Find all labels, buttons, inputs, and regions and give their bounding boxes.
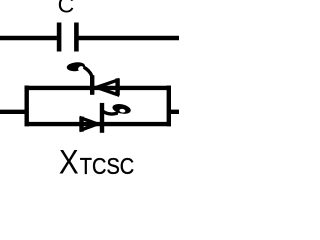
capacitor C left plate <box>57 23 62 52</box>
thyristor T2 gate blob <box>112 102 132 115</box>
thyristor T1 cathode bar <box>90 75 94 95</box>
wire (TCSC box left edge) <box>25 86 29 127</box>
thyristor T2 triangle <box>82 118 98 130</box>
wire (right lead of series capacitor) <box>78 36 180 40</box>
thyristor T1 triangle <box>97 80 118 94</box>
thyristor T2 gate lead <box>103 111 117 114</box>
thyristor T1 gate blob <box>66 61 85 72</box>
wire (right lead of TCSC module) <box>169 110 179 114</box>
wire (left lead of TCSC module) <box>0 110 27 114</box>
svg-text:TCSC: TCSC <box>80 153 134 179</box>
wire (top branch of TCSC box) <box>25 86 172 90</box>
thyristor T1 (top branch, pointing left) <box>66 61 117 95</box>
svg-text:X: X <box>59 142 79 179</box>
thyristor T2 (bottom branch, pointing right) <box>82 102 132 132</box>
wire (bottom branch of TCSC box) <box>25 122 172 126</box>
wire (TCSC box right edge) <box>167 86 171 127</box>
capacitor C right plate <box>74 23 79 52</box>
thyristor T2 cathode bar <box>100 103 104 133</box>
svg-text:C: C <box>58 0 75 17</box>
wire (left lead of series capacitor) <box>0 36 58 40</box>
thyristor T1 gate lead <box>83 67 92 80</box>
